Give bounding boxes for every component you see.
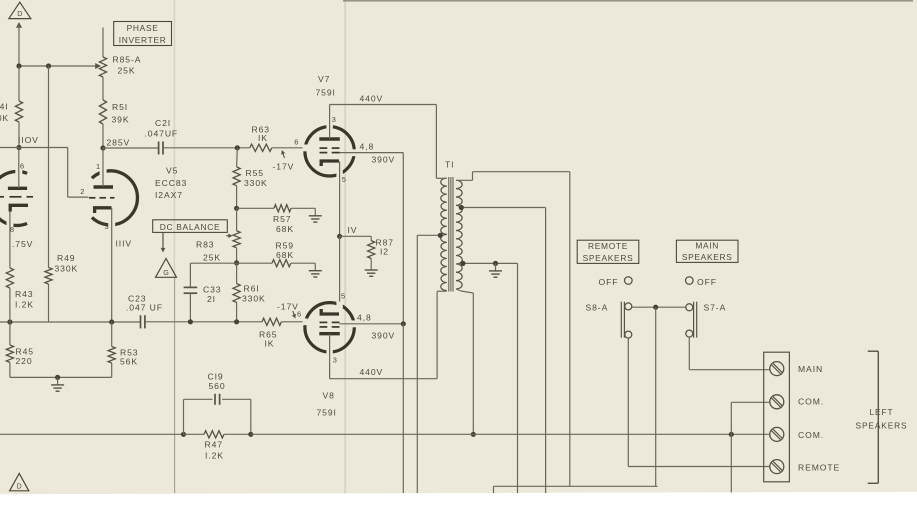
capacitor C21 [159,142,163,155]
bracket LEFT SPEAKERS [868,351,879,483]
V7 plate lead [329,105,331,140]
svg-text:INVERTER: INVERTER [119,35,167,45]
wire C23 to R65 [145,321,262,323]
label pin 2 [80,187,85,196]
label ECC83 [155,178,187,188]
resistor R53 [108,347,115,364]
svg-text:39K: 39K [112,115,130,125]
off-page connector D top [9,2,31,18]
label R43 [15,289,34,310]
capacitor C23 [141,315,145,328]
T1 primary top lead [436,177,446,179]
svg-text:D: D [17,9,22,18]
resistor R55 [233,167,240,186]
switch S8-A bar [621,302,624,338]
svg-text:TI: TI [445,160,454,170]
resistor R65 [262,318,281,325]
label 4,8 V7 [360,142,375,152]
label .75V [12,239,33,249]
svg-text:R49: R49 [57,253,75,263]
junction com2 node [729,432,734,437]
label 1V [348,225,358,235]
svg-text:390V: 390V [372,331,396,341]
svg-text:6: 6 [294,137,299,146]
S8-A contact bottom [625,331,632,338]
svg-text:759I: 759I [317,408,337,418]
label 390V V8 [372,331,396,341]
wire R53 [111,322,113,347]
svg-text:1: 1 [96,162,101,171]
terminal screw REMOTE [770,460,784,474]
switch S7-A bar [694,302,697,338]
label pin 3 V7 [332,115,337,124]
wire bottom bus [494,486,658,493]
svg-text:G: G [163,268,169,277]
label R59 [276,241,295,261]
junction R43 node [7,319,12,324]
label R85-A [113,55,142,76]
V7 plate [319,137,340,140]
svg-text:R47: R47 [205,440,223,450]
svg-text:R57: R57 [273,214,291,224]
wire R51 to 285V node [102,124,104,148]
V5A plate [8,187,27,190]
svg-text:-17V: -17V [277,302,299,312]
svg-text:S7-A: S7-A [704,303,727,313]
svg-text:330K: 330K [242,294,266,304]
wire to R57 [237,207,274,209]
svg-text:I.2K: I.2K [15,300,34,310]
svg-text:IIIV: IIIV [116,239,133,249]
junction R61 bottom [234,319,239,324]
arrow to G [161,232,166,252]
wire node2 to R61 [236,263,238,283]
label V5 [166,166,178,176]
svg-text:REMOTE: REMOTE [588,241,628,251]
svg-text:LEFT: LEFT [870,407,894,417]
svg-text:I2: I2 [380,247,389,257]
label R83 [196,240,221,263]
svg-text:DC BALANCE: DC BALANCE [160,222,221,232]
label SPEAKERS R [856,421,908,431]
tube V5 section B envelope [92,168,138,227]
svg-text:R83: R83 [196,240,214,250]
ground R57 [309,208,322,222]
label 285V [107,138,131,148]
wire R59 to ground [291,262,316,264]
label R55 [244,168,268,188]
svg-text:390V: 390V [372,155,396,165]
label 440V top [360,94,384,104]
label R65 [259,330,277,349]
svg-text:6: 6 [20,162,25,171]
wire R55 [236,148,239,167]
junction C33 bottom [188,319,193,324]
label pin 5 V8 [341,292,346,301]
terminal screw COM1 [770,395,784,409]
wire R43 bottom [9,288,11,322]
svg-text:25K: 25K [203,253,221,263]
wire C21 to R63 [163,147,250,149]
label R49 [55,253,79,274]
svg-text:4,8: 4,8 [360,142,375,152]
terminal screw MAIN [770,362,784,376]
junction C19 left [181,432,186,437]
label R53 [120,348,138,367]
junction screen node [401,321,406,326]
V5A cathode lead pin8 [9,212,11,269]
svg-text:D: D [17,484,22,491]
off-page connector G [156,259,177,278]
wire R55 to node [236,186,238,209]
T1 secondary top tap [456,172,570,487]
svg-text:560: 560 [209,381,226,391]
label OFF S7 [697,277,717,287]
terminal screw COM2 [770,427,784,441]
S7-A contact top [686,304,693,311]
T1 secondary bottom lead [456,289,473,434]
V7 cathode [321,161,339,166]
svg-text:440V: 440V [360,367,384,377]
tube V8 envelope [303,302,357,355]
V5B cathode lead pin3 [111,208,113,322]
V8 plate lead [329,334,331,379]
svg-text:REMOTE: REMOTE [798,462,840,472]
svg-text:PHASE: PHASE [127,23,159,33]
svg-text:S8-A: S8-A [586,303,609,313]
svg-text:IK: IK [265,339,275,349]
capacitor C33 [184,287,198,293]
svg-text:CI9: CI9 [208,372,224,382]
wire node to R83 [236,208,238,231]
svg-text:285V: 285V [107,138,131,148]
wire 110V row [0,147,68,149]
label pin 3 V8 [333,356,338,365]
label R57 [273,214,294,234]
wire S8 bottom drop [628,338,770,466]
wire R41 chain [18,66,20,148]
capacitor C19 loop [184,399,251,434]
svg-text:25K: 25K [118,66,136,76]
V7 cathode lead pin5 [339,162,341,237]
svg-text:759I: 759I [316,88,336,98]
svg-text:COM.: COM. [798,397,824,407]
label V8 [317,391,337,418]
wire 440V bottom [330,292,438,379]
V7 screen lead [340,152,404,154]
wire S7 bottom to MAIN [689,337,770,370]
svg-text:R6I: R6I [244,284,260,294]
resistor R61 [233,284,240,303]
wire screen drop [402,153,404,324]
svg-text:MAIN: MAIN [798,364,823,374]
wire R49 bottom [48,284,50,322]
svg-text:56K: 56K [120,357,138,367]
label T1 [445,160,454,170]
label C23 [126,294,163,313]
wire C33 top [190,263,236,287]
label 111V [116,239,133,249]
V5A cathode [10,205,28,211]
V8 plate [319,332,340,335]
label R41 value [0,102,9,124]
wire R87 to ground [370,259,372,263]
label pin 6 V8 [297,310,302,319]
T1 primary winding [441,178,447,291]
label pin 1 V5B [96,162,101,171]
terminal strip body [764,352,790,482]
svg-text:SPEAKERS: SPEAKERS [856,421,908,431]
V5B plate [94,185,114,188]
svg-text:V5: V5 [166,166,178,176]
wire R61 to grid row [236,302,238,321]
label 110V [18,135,39,145]
V5B plate lead pin1 [102,148,104,187]
svg-text:.75V: .75V [12,239,33,249]
wire above R85-A [102,28,104,58]
svg-text:4,8: 4,8 [357,313,372,323]
V8 grids dashes [320,322,340,327]
ground secondary [489,263,502,277]
svg-text:68K: 68K [276,250,294,260]
resistor R57 [274,205,291,212]
resistor R41 (edge-clipped) [15,101,22,122]
capacitor C19 [215,394,220,405]
wire 440V top [330,105,437,179]
label box DC BALANCE [153,220,228,233]
wire to grid2 [68,148,89,198]
svg-text:4I: 4I [0,102,9,112]
resistor R43 [6,268,13,288]
V5B grid dashes [89,197,115,199]
top edge wire [343,0,913,2]
label pin 6 V7 [294,137,299,146]
svg-text:8: 8 [10,225,15,234]
ground R59 [309,263,322,277]
wire grid row left [0,321,140,323]
T1 secondary tap3 [461,263,518,493]
junction C19 right [248,432,253,437]
label pin 5 V7 [342,175,347,184]
arrow up to D [16,22,22,66]
label 4,8 V8 [357,313,372,323]
svg-text:0K: 0K [0,113,9,123]
V7 grids dashes [320,148,340,153]
paper fold crease right [344,0,346,493]
wire 285V to C21 [103,147,158,149]
wire R57 to ground [291,207,315,209]
junction CT [438,233,443,238]
junction R55 top [235,145,240,150]
S7-A contact bottom [686,330,693,337]
svg-text:330K: 330K [244,178,268,188]
svg-text:C33: C33 [203,285,221,295]
label box PHASE INVERTER [114,22,172,46]
V8 cathode [321,309,339,314]
label S7-A [704,303,727,313]
label C33 [203,285,221,305]
wire feedback row right [251,433,770,435]
resistor R59 [272,260,291,267]
junction 110V [16,145,21,150]
junction R53 top node [109,319,114,324]
label 12AX7 [155,190,183,200]
S8-A contact top [625,303,632,310]
junction tap3 ground node [493,261,498,266]
V5A grid dashes [0,196,33,198]
svg-text:-17V: -17V [273,162,295,172]
wire long feedback row [0,433,184,435]
S8 OFF contact [625,277,633,285]
svg-text:330K: 330K [55,264,79,274]
resistor R51 [99,100,106,124]
wire S8 to S7 [632,306,686,308]
label R47 [205,440,224,461]
tube V7 envelope [303,124,357,177]
svg-text:R59: R59 [276,241,294,251]
wire cathode ground row [10,362,112,377]
svg-text:3: 3 [105,222,110,231]
ground R87 [365,263,378,277]
wire to R59 [237,262,272,264]
label C19 [208,372,226,392]
label 440V bottom [360,367,384,377]
label R51 [112,102,130,125]
resistor R45 [6,345,13,362]
junction A2 [46,63,51,68]
V5B cathode [95,208,112,213]
wire screen bus drop [402,324,404,493]
svg-text:68K: 68K [276,224,294,234]
V8 screen lead [340,323,404,325]
svg-text:220: 220 [16,356,33,366]
svg-text:2: 2 [80,187,85,196]
svg-text:.047UF: .047UF [145,129,179,139]
svg-text:IV: IV [348,225,358,235]
svg-text:.047 UF: .047 UF [126,303,163,313]
svg-text:R5I: R5I [112,102,128,112]
junction 285V [100,145,105,150]
resistor R85-A [99,57,106,77]
ground V5 cathodes [51,377,64,391]
svg-text:5: 5 [341,292,346,301]
S7 OFF contact [686,277,694,285]
testpoint -17V V8 [277,302,299,319]
resistor R47 [184,431,251,438]
svg-text:SPEAKERS: SPEAKERS [682,252,733,262]
label pin 8 V5A [10,225,15,234]
label OFF S8 [599,277,619,287]
svg-text:MAIN: MAIN [695,241,719,251]
label R63 [252,125,270,143]
wire R83 to node2 [236,248,238,263]
label COM2 [798,430,824,440]
paper fold crease left [173,0,175,493]
resistor R87 [368,241,375,259]
wire R85A-R51 [102,77,104,100]
svg-text:3: 3 [332,115,337,124]
svg-text:SPEAKERS: SPEAKERS [583,253,634,263]
junction cathode node [337,234,342,239]
T1 secondary tap2 [461,208,546,494]
wire R63 to V7 grid [272,147,307,149]
label R61 [242,284,266,304]
label V7 [316,74,336,98]
svg-text:I2AX7: I2AX7 [155,190,183,200]
off-page connector D bottom [10,473,29,490]
resistor R49 [45,268,52,285]
svg-text:V8: V8 [323,391,335,401]
svg-text:C2I: C2I [155,118,171,128]
svg-text:5: 5 [342,175,347,184]
T1 primary center tap [417,235,441,493]
junction A1 [16,63,21,68]
label MAIN [798,364,823,374]
wire C33 bottom [189,293,191,321]
svg-text:I.2K: I.2K [205,451,224,461]
wire COM1 [731,402,770,492]
testpoint -17V V7 [273,150,295,172]
svg-text:R85-A: R85-A [113,55,142,65]
label R45 [16,347,34,367]
svg-text:3: 3 [333,356,338,365]
wire R45 [9,322,11,345]
potentiometer R83 [226,231,240,248]
svg-text:OFF: OFF [599,277,619,287]
junction secondary bottom [471,432,476,437]
svg-text:R55: R55 [246,168,264,178]
V5A plate lead pin6 [18,148,20,189]
label COM1 [798,397,824,407]
junction tap2 [459,205,464,210]
label pin 6 V5A [20,162,25,171]
svg-text:R43: R43 [15,289,33,299]
svg-text:OFF: OFF [697,277,717,287]
label box MAIN SPEAKERS [676,240,738,262]
svg-text:440V: 440V [360,94,384,104]
T1 secondary winding [456,180,462,289]
label LEFT [870,407,894,417]
svg-text:IK: IK [258,133,268,143]
svg-text:COM.: COM. [798,430,824,440]
tube V5 section A envelope [0,168,27,228]
label REMOTE [798,462,840,472]
svg-text:IIOV: IIOV [18,135,39,145]
junction switch node [653,305,658,310]
junction R59 node [234,260,239,265]
label S8-A [586,303,609,313]
resistor R63 [250,144,272,151]
label C21 [145,118,179,139]
wire to R87 [340,236,372,240]
wire cathode link V7-V8 [339,236,341,304]
label R87 [376,238,394,257]
wire R49 drop [48,66,50,268]
svg-text:2I: 2I [207,294,216,304]
label pin 3 V5B [105,222,110,231]
junction R57 node [234,206,239,211]
svg-text:ECC83: ECC83 [155,178,187,188]
wire R65 to V8 grid [281,321,307,323]
label 390V V7 [372,155,396,165]
T1 core [449,177,453,292]
T1 primary bottom lead [437,290,446,292]
wire node-A horizontal [19,63,101,69]
svg-text:R45: R45 [16,347,34,357]
svg-text:V7: V7 [318,74,330,84]
junction ground row [55,375,60,380]
junction tap3 [460,261,465,266]
